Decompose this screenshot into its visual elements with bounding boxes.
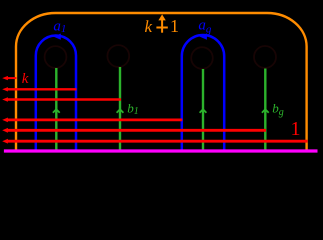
arrow on b1	[53, 109, 60, 112]
arrow on fourth green	[262, 109, 269, 112]
red boundary line 4	[6, 119, 182, 122]
boundary curve k+1 (orange rounded outline)	[16, 13, 307, 150]
curve b1 (green vertical)	[55, 68, 57, 150]
arrow to boundary k+1 (shaft doubles as plus vertical)	[161, 19, 163, 33]
hole 4	[254, 46, 276, 68]
curve b_g fourth green	[264, 69, 266, 150]
svg-text:1: 1	[291, 118, 301, 140]
bottom boundary (magenta)	[4, 149, 318, 152]
curve b1' second green	[119, 67, 121, 150]
red boundary line 2	[6, 88, 77, 90]
red boundary line 5	[6, 129, 266, 132]
curve a_g (blue arch)	[182, 35, 224, 150]
curve b_g third green	[202, 69, 204, 150]
svg-text:1: 1	[170, 16, 179, 36]
hole 1	[45, 46, 67, 68]
red boundary line 1	[6, 140, 308, 143]
svg-text:k: k	[22, 71, 29, 87]
curve a1 (blue arch)	[36, 36, 76, 150]
arrow on a1	[54, 34, 61, 40]
red boundary line 3	[6, 98, 121, 101]
red boundary line k	[6, 77, 17, 79]
arrow on second green	[117, 109, 124, 112]
svg-text:k: k	[145, 17, 153, 36]
arrow on third green	[200, 109, 207, 112]
arrow on a_g	[200, 34, 207, 40]
hole 3	[191, 47, 213, 69]
hole 2	[107, 45, 129, 67]
